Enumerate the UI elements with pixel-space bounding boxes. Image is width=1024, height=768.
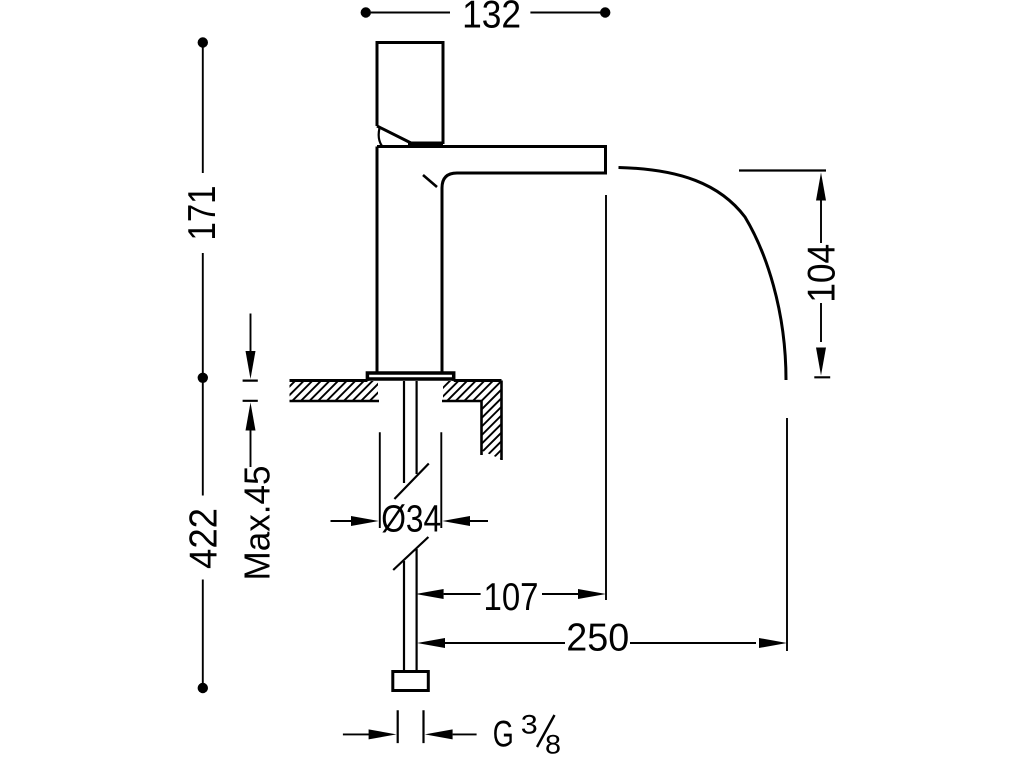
svg-text:132: 132 — [462, 0, 521, 37]
svg-text:171: 171 — [181, 186, 224, 241]
dim 250 extension line — [786, 418, 788, 651]
250 left arrow — [417, 638, 445, 648]
pipe break diagonal 2 — [393, 537, 428, 570]
G3/8 witness ticks — [398, 710, 424, 743]
water stream curve — [619, 168, 787, 381]
svg-text:104: 104 — [801, 244, 844, 303]
svg-text:Max.45: Max.45 — [237, 466, 278, 581]
supply pipe upper segment — [404, 381, 417, 483]
base plate bottom edge — [367, 377, 453, 381]
dim 422 bottom end dot — [198, 683, 208, 693]
countertop hatching — [0, 340, 1024, 700]
supply pipe lower segment — [404, 549, 417, 672]
countertop bottom lines and basin edge — [290, 381, 502, 461]
svg-text:3: 3 — [521, 710, 538, 740]
base plate outline — [367, 373, 453, 381]
svg-text:Ø34: Ø34 — [381, 499, 441, 541]
dim 250 shafts — [445, 642, 756, 644]
bottom fitting — [393, 672, 429, 691]
Max.45 ticks — [243, 381, 258, 401]
dim 132 left end dot — [361, 7, 371, 17]
dim 107 extension line — [605, 195, 607, 600]
dim 171 top end dot — [198, 37, 208, 47]
G3/8 arrow shafts — [343, 733, 477, 735]
handle lever body — [377, 43, 443, 147]
faucet body and spout outline — [377, 147, 606, 372]
G3/8 fraction slash — [537, 715, 555, 747]
dia34 right arrow (points left) — [442, 516, 470, 526]
svg-text:G: G — [493, 713, 514, 754]
pipe break diagonal 1 — [394, 464, 428, 500]
dim 171/422 middle dot — [198, 373, 208, 383]
spout underside accent line — [423, 175, 437, 187]
dim 132 lines — [371, 12, 601, 14]
arrowheads — [246, 173, 827, 740]
dim 104 shafts — [820, 200, 822, 342]
Max.45 up arrow — [246, 403, 256, 431]
dim 132 right end dot — [600, 7, 610, 17]
svg-text:107: 107 — [484, 576, 539, 619]
G3/8 left arrow — [369, 729, 397, 739]
dim 171/422 vertical line — [202, 47, 204, 684]
107 right arrow — [578, 589, 606, 599]
dim 104 ticks — [739, 171, 830, 378]
dia34 left arrow (points right) — [351, 516, 379, 526]
dia34 witness lines — [380, 432, 442, 528]
104 bottom arrow (points down) — [816, 348, 826, 376]
dim 107 shafts — [444, 593, 579, 595]
Max.45 arrow shafts — [250, 314, 252, 468]
Max.45 down arrow — [246, 351, 256, 379]
G3/8 right arrow — [425, 729, 453, 739]
107 left arrow — [416, 589, 444, 599]
countertop top surface line — [290, 379, 502, 382]
104 top arrow (points up) — [816, 173, 826, 201]
250 right arrow — [759, 638, 787, 648]
svg-text:8: 8 — [545, 730, 561, 760]
dia34 arrow shafts — [331, 520, 489, 522]
svg-text:250: 250 — [566, 617, 629, 660]
svg-text:422: 422 — [183, 508, 226, 569]
